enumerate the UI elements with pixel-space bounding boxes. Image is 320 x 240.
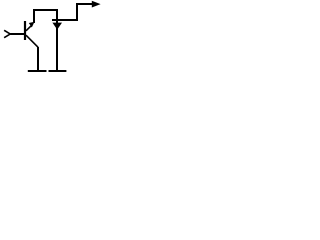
wire base	[10, 33, 25, 35]
wire right vertical	[56, 10, 58, 70]
wire top rail	[33, 9, 58, 11]
wire emitter up	[33, 11, 35, 23]
transistor Q1 collector diagonal	[26, 35, 38, 47]
wire right up	[76, 4, 78, 21]
wire tee branch	[52, 19, 78, 21]
ground right	[49, 70, 67, 72]
wire collector down	[37, 47, 39, 70]
input port arrow	[5, 31, 10, 38]
transistor Q1 base bar	[24, 21, 26, 40]
transistor Q1 emitter arrowhead	[29, 22, 35, 28]
wire output	[76, 3, 92, 5]
transistor Q1 emitter diagonal	[26, 25, 32, 30]
wire arrow down	[52, 23, 62, 30]
output port arrow	[92, 1, 101, 8]
ground left	[28, 70, 47, 72]
